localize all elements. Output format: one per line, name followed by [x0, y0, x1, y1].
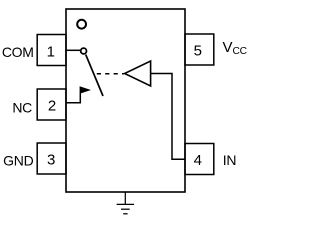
- NC throw contact (filled flag): [80, 86, 91, 94]
- wire pin2 to NC throw: [66, 93, 80, 103]
- pin 5 box: [185, 34, 214, 65]
- pin 3 box: [37, 143, 66, 174]
- dashed actuation line: [97, 73, 124, 75]
- wire triangle to pin4: [151, 74, 185, 160]
- svg-text:GND: GND: [3, 153, 33, 169]
- driver triangle (buffer): [125, 61, 151, 86]
- switch blade: [86, 55, 103, 96]
- svg-text:NC: NC: [12, 99, 32, 115]
- pin 1 box: [37, 35, 66, 66]
- pin 2 box: [37, 89, 66, 120]
- svg-text:2: 2: [48, 97, 56, 114]
- switch pole circle: [81, 48, 87, 54]
- svg-text:1: 1: [47, 43, 55, 60]
- ground bar 3: [123, 213, 127, 215]
- svg-text:4: 4: [194, 152, 202, 169]
- ground stub: [124, 192, 126, 204]
- wire pin1 to switch pole: [66, 49, 81, 51]
- ground bar 1: [117, 203, 134, 205]
- svg-text:5: 5: [194, 42, 202, 59]
- IC body U1: [66, 9, 185, 192]
- pin 4 box: [185, 144, 214, 175]
- ground bar 2: [121, 208, 130, 210]
- svg-text:COM: COM: [2, 44, 34, 60]
- svg-text:IN: IN: [223, 152, 236, 168]
- svg-text:3: 3: [47, 152, 55, 169]
- pin-1 orientation dot: [77, 20, 86, 29]
